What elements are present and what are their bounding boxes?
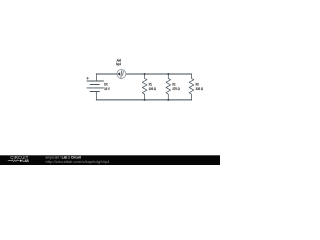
svg-text:LAB: LAB	[23, 159, 30, 163]
resistor R2	[166, 74, 171, 101]
footer bar	[0, 155, 220, 165]
label N/A	[117, 63, 122, 66]
ammeter arrow head	[117, 72, 120, 76]
battery V1 short plate 1	[90, 84, 99, 86]
battery V1 long plate 1	[87, 80, 104, 82]
label AM	[117, 59, 121, 61]
junction node R1 top	[144, 73, 146, 75]
junction node R1 bottom	[144, 99, 146, 101]
svg-text:10 V: 10 V	[104, 87, 110, 91]
battery plus sign	[87, 77, 89, 79]
svg-text:amyscaid / Lab 1 Circuit: amyscaid / Lab 1 Circuit	[46, 155, 82, 159]
battery V1 short plate 2	[90, 91, 99, 93]
battery V1 long plate 2	[87, 87, 104, 89]
wire battery negative terminal	[95, 92, 97, 101]
wire top rail ammeter to R3	[126, 73, 192, 75]
junction node R2 bottom	[167, 99, 169, 101]
svg-text:http://circuitlab.com/c/kapfc4: http://circuitlab.com/c/kapfc4g94p4	[46, 160, 110, 164]
wire top rail battery to ammeter	[96, 73, 117, 75]
ammeter AM1 circle	[117, 69, 126, 78]
logo arrow	[20, 159, 22, 162]
junction node R2 top	[167, 73, 169, 75]
svg-text:100 Ω: 100 Ω	[149, 87, 157, 91]
svg-text:270 Ω: 270 Ω	[172, 87, 180, 91]
wire battery positive terminal	[95, 74, 97, 81]
wire bottom rail	[96, 99, 192, 101]
resistor R1	[142, 74, 147, 101]
ammeter needle strokes	[121, 70, 122, 78]
logo resistor zigzag	[8, 160, 20, 162]
resistor R3	[189, 74, 194, 101]
svg-text:330 Ω: 330 Ω	[196, 87, 204, 91]
